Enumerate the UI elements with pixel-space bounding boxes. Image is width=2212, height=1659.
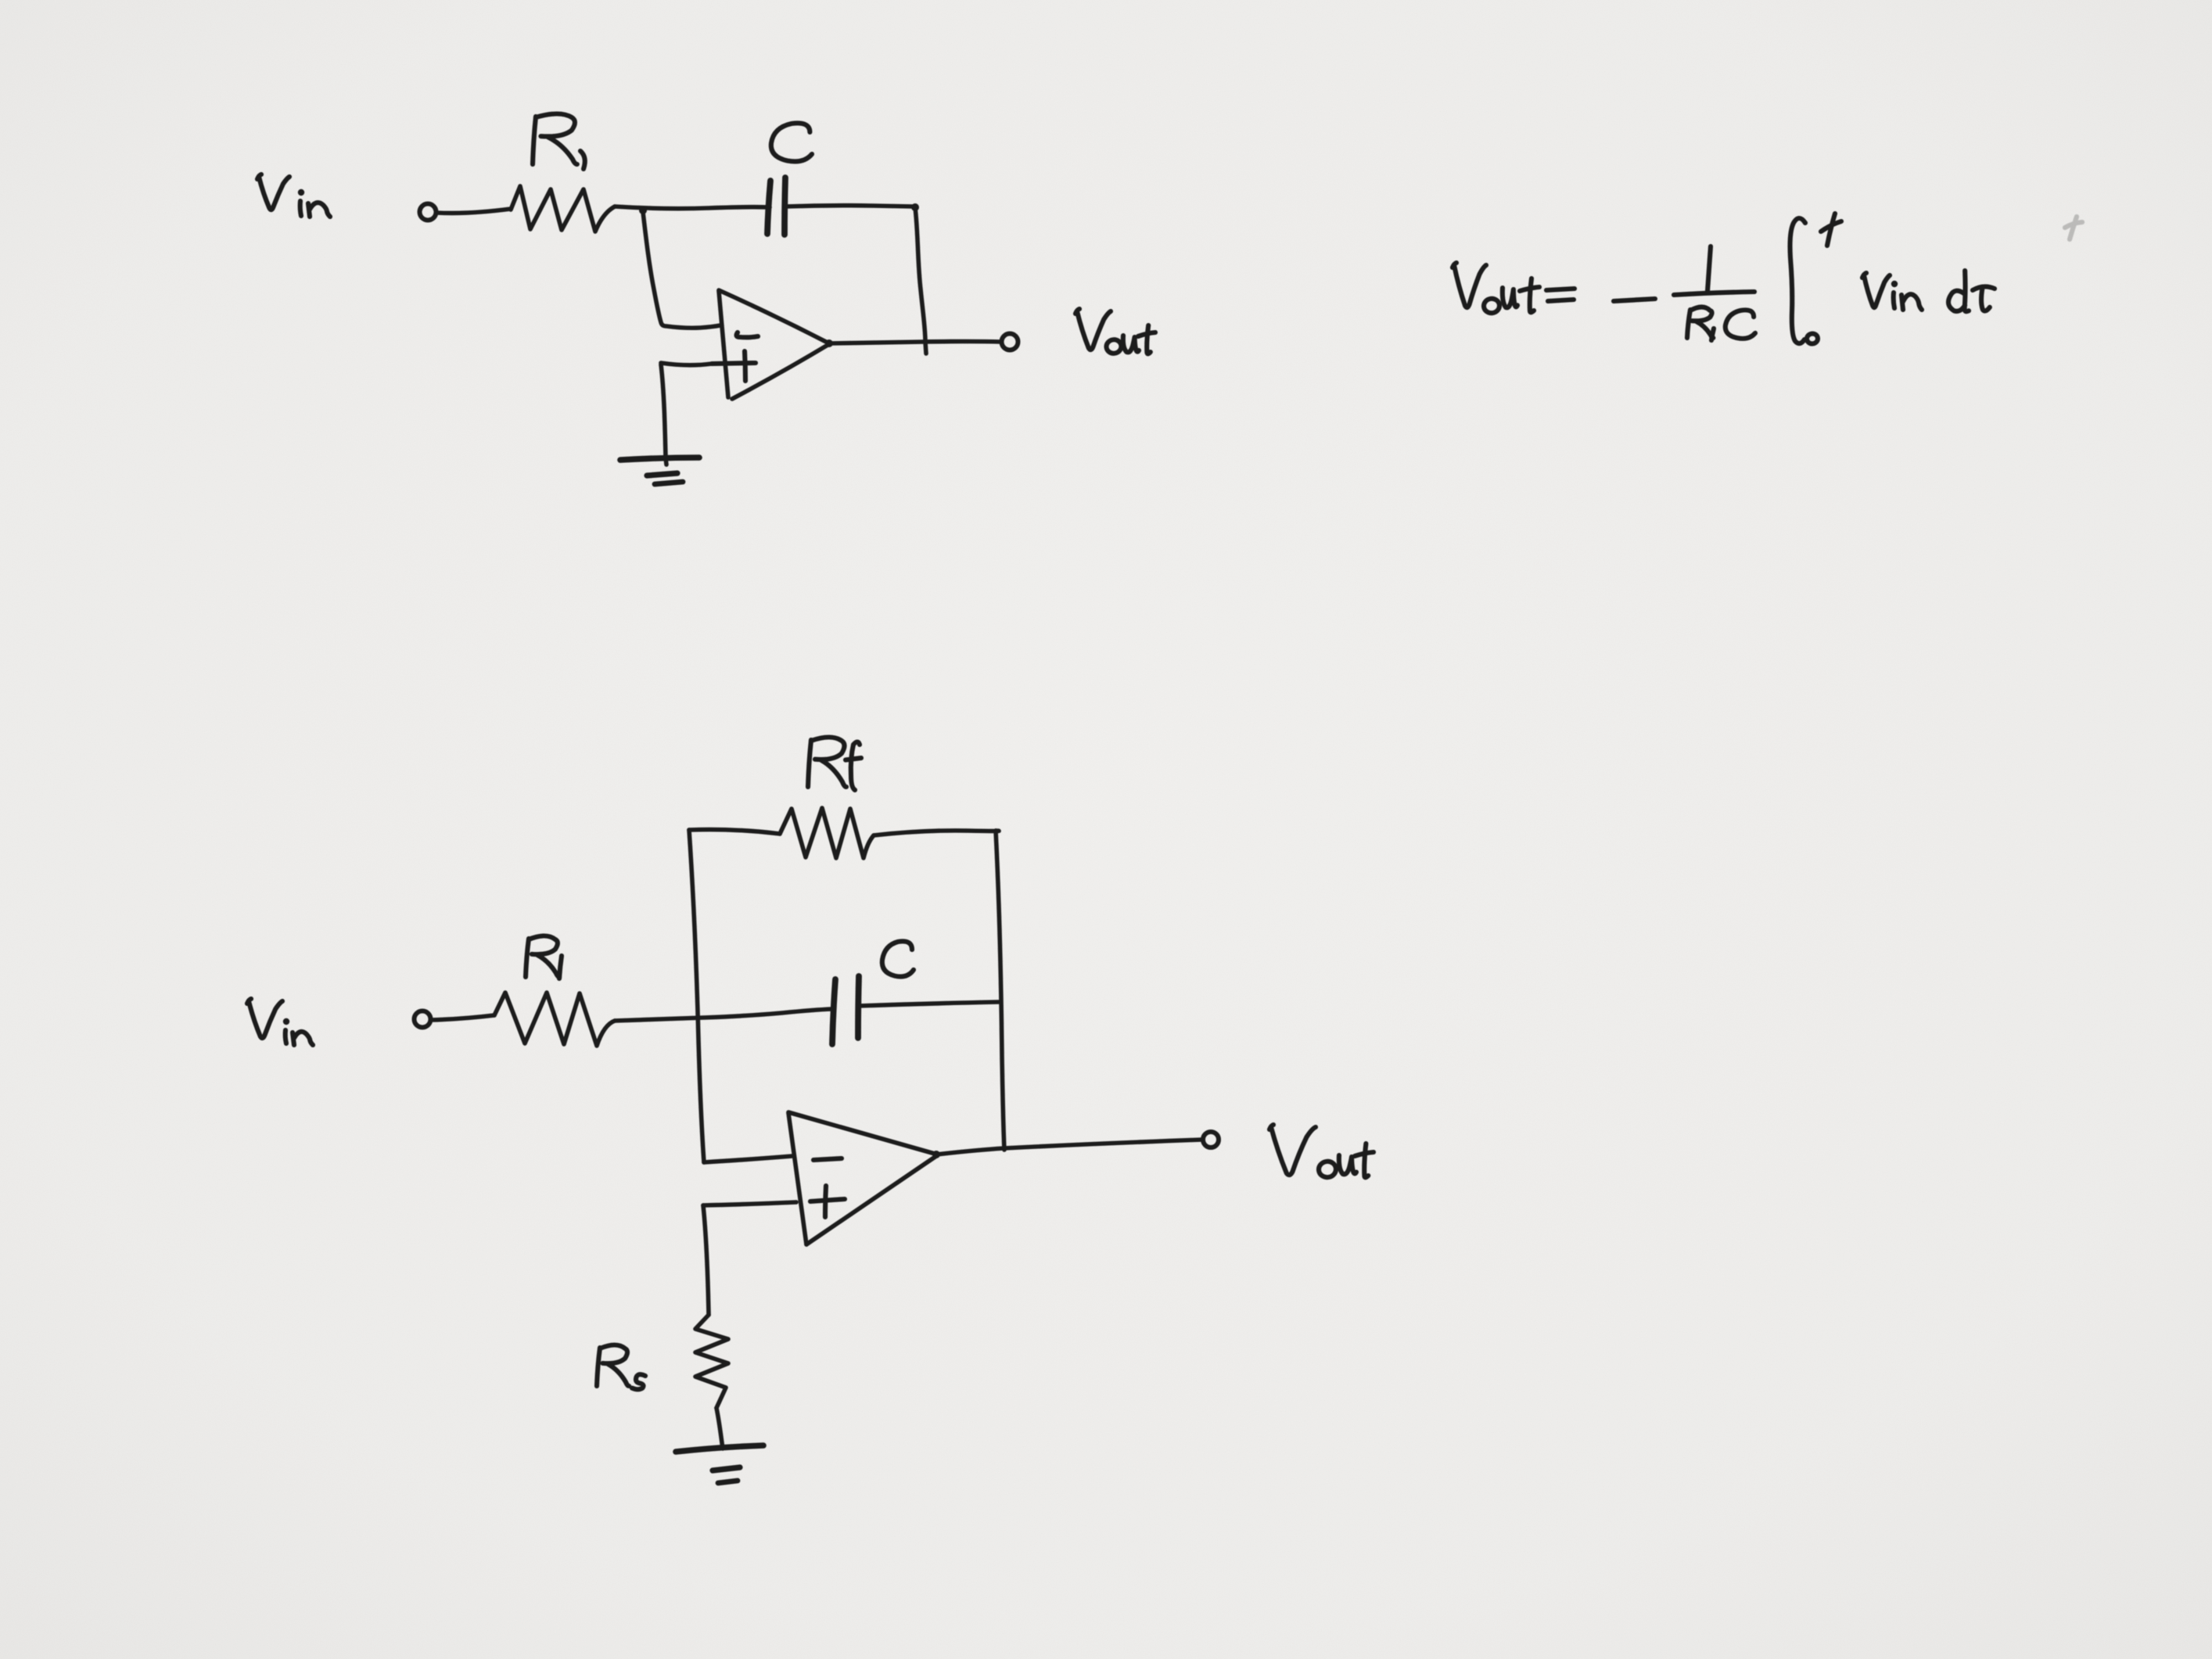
label Vout (bottom circuit) xyxy=(1269,1125,1374,1179)
equation fraction numerator 1 xyxy=(1707,246,1711,291)
resistor Rf xyxy=(780,808,874,858)
wire feedback right vertical xyxy=(996,831,1004,1150)
stray faint mark xyxy=(2065,217,2082,239)
wire corner down to output node xyxy=(915,207,926,354)
wire noninverting to Rs xyxy=(703,1205,709,1315)
op-amp U1 triangle xyxy=(719,290,829,399)
ground (top circuit) xyxy=(620,458,699,484)
label Vout (top circuit) xyxy=(1075,309,1155,354)
label C (bottom circuit) xyxy=(882,941,914,976)
wire feedback top left xyxy=(689,830,780,834)
equation fraction bar xyxy=(1674,292,1754,295)
equation minus sign xyxy=(1614,299,1655,301)
wire junction down to inverting input xyxy=(643,212,720,328)
terminal Vout (bottom circuit) xyxy=(1203,1132,1219,1147)
node junction at inverting input xyxy=(639,206,647,214)
wire C to feedback right vertical xyxy=(859,1002,1000,1006)
op-amp U2 triangle xyxy=(788,1112,936,1244)
wire noninverting input xyxy=(661,363,712,365)
terminal Vin (bottom circuit) xyxy=(415,1011,431,1028)
wire noninverting input to ground xyxy=(661,364,666,465)
terminal Vout (top circuit) xyxy=(1002,334,1018,350)
equation fraction R1C xyxy=(1687,307,1755,341)
equation equals sign xyxy=(1546,289,1575,301)
op-amp U1 minus sign xyxy=(737,332,758,337)
resistor R1 (top circuit) xyxy=(511,186,615,232)
op-amp U2 plus sign xyxy=(810,1186,845,1217)
label Rs xyxy=(597,1345,645,1390)
wire Rs to ground xyxy=(716,1408,723,1449)
resistor Rs xyxy=(695,1315,728,1408)
label R1 (top circuit) xyxy=(533,114,585,170)
wire op-amp U2 output to Vout terminal xyxy=(936,1140,1202,1154)
terminal Vin (top circuit) xyxy=(420,204,436,221)
label C (top circuit) xyxy=(771,123,812,161)
wire Vin terminal to R1 (bottom) xyxy=(431,1015,494,1020)
equation integral upper limit t xyxy=(1821,214,1841,246)
op-amp U2 output node xyxy=(932,1151,940,1158)
equation Vin xyxy=(1862,273,1922,310)
wire Vin terminal to R1 xyxy=(436,209,511,213)
node Vin label (top circuit) xyxy=(257,174,330,217)
ground (bottom circuit) xyxy=(676,1445,763,1483)
label R1 (bottom circuit) xyxy=(526,936,562,979)
equation integral lower limit o xyxy=(1806,333,1819,345)
op-amp U2 minus sign xyxy=(813,1158,842,1160)
capacitor C (top circuit) xyxy=(767,178,785,235)
equation Vout xyxy=(1453,263,1539,314)
wire op-amp U1 output to Vout terminal xyxy=(829,342,1001,344)
wire Rf to feedback right corner xyxy=(874,831,999,835)
resistor R1 (bottom circuit) xyxy=(494,993,615,1046)
wire R1 to capacitor C (bottom) xyxy=(615,1009,832,1021)
equation d tau xyxy=(1948,271,1995,311)
op-amp U1 plus sign xyxy=(712,351,756,381)
op-amp U1 output node xyxy=(825,339,833,347)
wire noninverting input (bottom) xyxy=(703,1202,796,1205)
node corner junction xyxy=(911,203,919,211)
capacitor C (bottom circuit) xyxy=(832,976,859,1044)
equation integral sign xyxy=(1790,218,1806,343)
node Vin label (bottom circuit) xyxy=(247,999,313,1045)
wire R1 to capacitor C (inverting node) xyxy=(615,206,770,209)
wire feedback left vertical xyxy=(689,830,704,1162)
wire inverting input (bottom) xyxy=(704,1156,792,1162)
label Rf xyxy=(808,738,861,791)
wire C to output corner xyxy=(785,206,914,206)
